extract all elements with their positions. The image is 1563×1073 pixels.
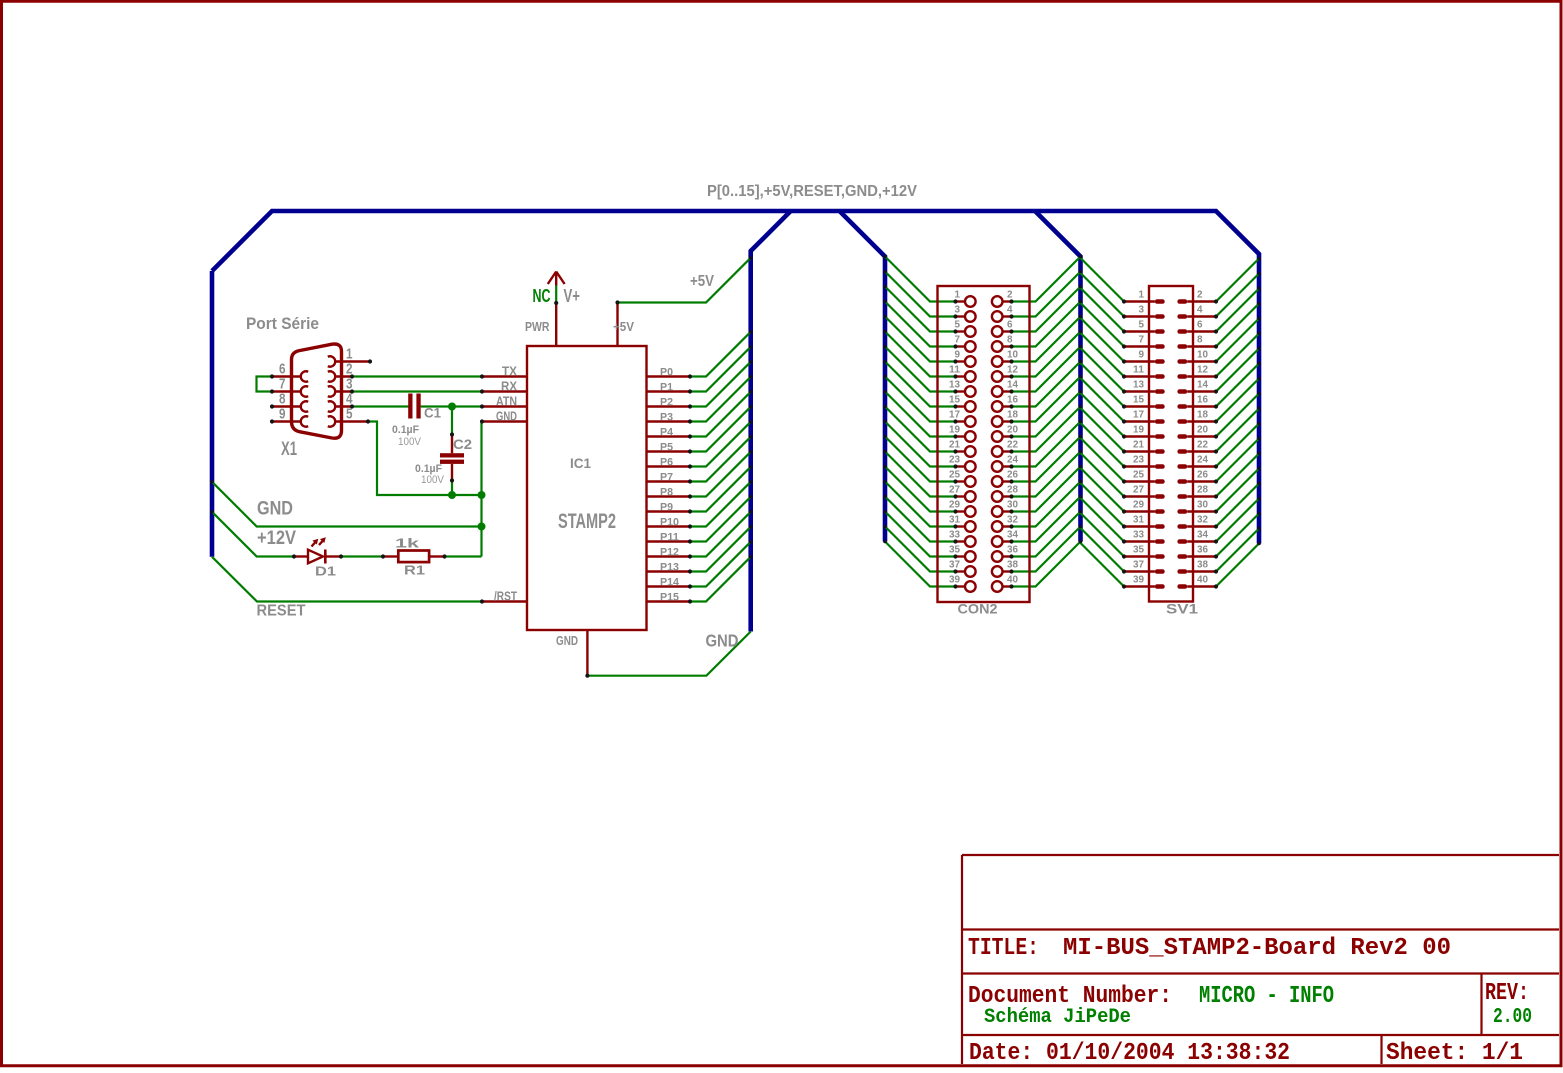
svg-text:13: 13 xyxy=(1133,380,1144,391)
svg-text:24: 24 xyxy=(1197,455,1208,466)
svg-text:9: 9 xyxy=(279,406,286,423)
svg-text:12: 12 xyxy=(1007,365,1018,376)
svg-text:1: 1 xyxy=(1139,290,1145,301)
svg-text:D1: D1 xyxy=(315,564,336,579)
svg-text:21: 21 xyxy=(1133,440,1144,451)
svg-text:37: 37 xyxy=(1133,560,1144,571)
svg-text:REV:: REV: xyxy=(1485,980,1529,1007)
svg-text:33: 33 xyxy=(1133,530,1144,541)
svg-text:31: 31 xyxy=(1133,515,1144,526)
svg-text:5: 5 xyxy=(1139,320,1145,331)
svg-text:P9: P9 xyxy=(660,502,673,514)
svg-text:15: 15 xyxy=(1133,395,1144,406)
svg-text:P5: P5 xyxy=(660,442,673,454)
svg-text:Date: 01/10/2004 13:38:32: Date: 01/10/2004 13:38:32 xyxy=(969,1040,1290,1067)
svg-text:P6: P6 xyxy=(660,457,673,469)
svg-text:18: 18 xyxy=(1197,410,1208,421)
svg-text:25: 25 xyxy=(1133,470,1144,481)
svg-text:NC: NC xyxy=(533,286,551,306)
svg-text:35: 35 xyxy=(1133,545,1144,556)
svg-text:P3: P3 xyxy=(660,412,673,424)
svg-text:GND: GND xyxy=(496,410,517,424)
svg-text:39: 39 xyxy=(949,575,960,586)
svg-text:PWR: PWR xyxy=(525,320,550,334)
svg-text:P0: P0 xyxy=(660,367,673,379)
svg-text:21: 21 xyxy=(949,440,960,451)
svg-text:29: 29 xyxy=(949,500,960,511)
svg-text:34: 34 xyxy=(1197,530,1208,541)
svg-text:X1: X1 xyxy=(281,439,297,460)
svg-text:P15: P15 xyxy=(660,592,679,604)
svg-text:P12: P12 xyxy=(660,547,679,559)
svg-text:2: 2 xyxy=(1197,290,1203,301)
svg-text:11: 11 xyxy=(949,365,960,376)
svg-text:10: 10 xyxy=(1007,350,1018,361)
svg-text:9: 9 xyxy=(955,350,961,361)
svg-text:20: 20 xyxy=(1197,425,1208,436)
svg-text:/RST: /RST xyxy=(494,590,517,604)
svg-text:13: 13 xyxy=(949,380,960,391)
svg-text:40: 40 xyxy=(1007,575,1018,586)
svg-text:V+: V+ xyxy=(564,286,581,306)
svg-text:35: 35 xyxy=(949,545,960,556)
svg-text:2.00: 2.00 xyxy=(1493,1006,1532,1029)
svg-text:17: 17 xyxy=(1133,410,1144,421)
svg-text:38: 38 xyxy=(1007,560,1018,571)
svg-text:30: 30 xyxy=(1197,500,1208,511)
svg-text:24: 24 xyxy=(1007,455,1018,466)
svg-text:38: 38 xyxy=(1197,560,1208,571)
svg-text:7: 7 xyxy=(955,335,961,346)
svg-text:26: 26 xyxy=(1007,470,1018,481)
svg-text:6: 6 xyxy=(1197,320,1203,331)
svg-text:P1: P1 xyxy=(660,382,673,394)
svg-text:17: 17 xyxy=(949,410,960,421)
svg-text:Sheet: 1/1: Sheet: 1/1 xyxy=(1386,1040,1523,1067)
svg-text:19: 19 xyxy=(949,425,960,436)
svg-text:20: 20 xyxy=(1007,425,1018,436)
svg-text:+12V: +12V xyxy=(257,528,296,549)
svg-text:RESET: RESET xyxy=(257,603,306,620)
svg-text:STAMP2: STAMP2 xyxy=(558,510,616,533)
svg-text:TITLE:: TITLE: xyxy=(968,935,1039,962)
svg-text:MI-BUS_STAMP2-Board Rev2 00: MI-BUS_STAMP2-Board Rev2 00 xyxy=(1063,935,1451,962)
svg-text:19: 19 xyxy=(1133,425,1144,436)
svg-text:16: 16 xyxy=(1197,395,1208,406)
svg-text:31: 31 xyxy=(949,515,960,526)
svg-text:0.1µF: 0.1µF xyxy=(392,424,419,436)
svg-text:100V: 100V xyxy=(398,436,422,448)
svg-text:SV1: SV1 xyxy=(1166,601,1198,617)
svg-text:22: 22 xyxy=(1197,440,1208,451)
svg-text:36: 36 xyxy=(1007,545,1018,556)
svg-text:36: 36 xyxy=(1197,545,1208,556)
svg-text:10: 10 xyxy=(1197,350,1208,361)
svg-text:Schéma JiPeDe: Schéma JiPeDe xyxy=(984,1006,1131,1029)
svg-text:3: 3 xyxy=(955,305,961,316)
svg-text:5: 5 xyxy=(955,320,961,331)
svg-text:P8: P8 xyxy=(660,487,673,499)
svg-text:8: 8 xyxy=(1197,335,1203,346)
svg-text:CON2: CON2 xyxy=(958,601,998,617)
svg-text:7: 7 xyxy=(1139,335,1145,346)
svg-text:C1: C1 xyxy=(424,406,441,421)
svg-text:29: 29 xyxy=(1133,500,1144,511)
svg-text:30: 30 xyxy=(1007,500,1018,511)
svg-text:GND: GND xyxy=(706,631,739,651)
svg-text:27: 27 xyxy=(949,485,960,496)
svg-text:R1: R1 xyxy=(404,563,425,578)
svg-text:28: 28 xyxy=(1007,485,1018,496)
svg-text:1k: 1k xyxy=(395,536,420,551)
svg-text:12: 12 xyxy=(1197,365,1208,376)
svg-text:8: 8 xyxy=(1007,335,1013,346)
svg-text:3: 3 xyxy=(1139,305,1145,316)
svg-text:RX: RX xyxy=(501,380,518,394)
svg-text:Port Série: Port Série xyxy=(246,314,319,333)
svg-text:11: 11 xyxy=(1133,365,1144,376)
svg-text:33: 33 xyxy=(949,530,960,541)
svg-text:6: 6 xyxy=(1007,320,1013,331)
svg-text:+5V: +5V xyxy=(690,273,715,290)
svg-text:23: 23 xyxy=(949,455,960,466)
svg-text:23: 23 xyxy=(1133,455,1144,466)
svg-text:26: 26 xyxy=(1197,470,1208,481)
svg-text:37: 37 xyxy=(949,560,960,571)
svg-text:ATN: ATN xyxy=(496,395,517,409)
svg-text:40: 40 xyxy=(1197,575,1208,586)
svg-text:5: 5 xyxy=(346,406,353,423)
svg-text:18: 18 xyxy=(1007,410,1018,421)
svg-text:34: 34 xyxy=(1007,530,1018,541)
svg-text:14: 14 xyxy=(1007,380,1018,391)
svg-text:27: 27 xyxy=(1133,485,1144,496)
svg-text:P10: P10 xyxy=(660,517,679,529)
svg-text:P14: P14 xyxy=(660,577,679,589)
svg-text:GND: GND xyxy=(257,499,293,520)
svg-text:32: 32 xyxy=(1007,515,1018,526)
svg-text:4: 4 xyxy=(1007,305,1013,316)
svg-text:P7: P7 xyxy=(660,472,673,484)
svg-text:TX: TX xyxy=(502,365,518,379)
svg-text:15: 15 xyxy=(949,395,960,406)
svg-text:+5V: +5V xyxy=(613,320,635,334)
svg-text:4: 4 xyxy=(1197,305,1203,316)
svg-text:GND: GND xyxy=(556,634,578,648)
svg-text:2: 2 xyxy=(1007,290,1013,301)
svg-text:9: 9 xyxy=(1139,350,1145,361)
svg-text:C2: C2 xyxy=(453,437,472,452)
svg-text:100V: 100V xyxy=(421,474,445,486)
svg-text:IC1: IC1 xyxy=(570,455,591,471)
svg-text:P11: P11 xyxy=(660,532,679,544)
svg-text:P2: P2 xyxy=(660,397,673,409)
svg-text:25: 25 xyxy=(949,470,960,481)
svg-text:MICRO - INFO: MICRO - INFO xyxy=(1199,983,1334,1010)
svg-text:32: 32 xyxy=(1197,515,1208,526)
svg-text:22: 22 xyxy=(1007,440,1018,451)
svg-text:14: 14 xyxy=(1197,380,1208,391)
svg-text:39: 39 xyxy=(1133,575,1144,586)
svg-text:P[0..15],+5V,RESET,GND,+12V: P[0..15],+5V,RESET,GND,+12V xyxy=(707,183,917,200)
svg-text:P4: P4 xyxy=(660,427,673,439)
svg-text:16: 16 xyxy=(1007,395,1018,406)
svg-text:28: 28 xyxy=(1197,485,1208,496)
svg-text:P13: P13 xyxy=(660,562,679,574)
svg-text:1: 1 xyxy=(955,290,961,301)
